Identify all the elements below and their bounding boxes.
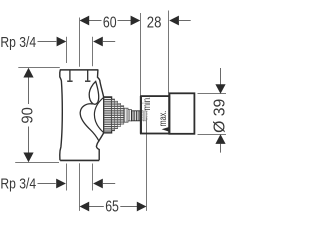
arrow Rp bottom left-pointing [93,179,103,189]
svg-text:65: 65 [105,198,119,215]
svg-text:min.: min. [142,96,153,111]
funnel neck curve [94,97,103,132]
arrow 90 bottom [23,153,33,163]
arrow right of dim 65 [137,202,147,212]
wire: tail Rp bottom [103,183,115,185]
extension line diameter top [198,93,227,95]
sleeve section1 rect [141,96,169,133]
extension line 90-dim top [18,67,60,69]
wire: leader Rp top [38,41,57,43]
extension line 90-dim bottom [15,162,59,164]
dimension line d39 bottom segment [220,144,222,153]
serrated cone step2 [115,101,118,128]
max depth arrow [162,127,169,131]
body left wall [60,70,63,160]
svg-text:Rp 3/4: Rp 3/4 [0,177,36,193]
arrow Rp top left-pointing [93,37,103,47]
svg-text:28: 28 [147,14,162,31]
arrow left of dim 65 [80,202,90,212]
svg-text:Rp 3/4: Rp 3/4 [0,35,36,51]
dimension line d39 top segment [220,68,222,85]
wire: tail of 28 right arrow [179,20,191,22]
thread hook left stem [69,71,71,81]
extension line sleeve divider x169 [168,11,170,94]
sleeve left edge thick [140,96,142,134]
arrow 90 top [23,68,33,78]
spindle ring step A [124,108,128,122]
wire: leader Rp bottom [38,183,56,185]
arrow right of dim 60 [131,16,141,26]
arrow Rp top right-pointing [57,37,67,47]
thread hook right foot [85,80,90,82]
knurl end block [132,111,140,121]
extension line diameter bottom [198,134,227,136]
extension line sleeve left x140 [140,13,142,95]
body top cap [60,69,99,71]
wire: top dimension line 60 segment right [118,20,132,22]
thread hook right stem [87,71,89,81]
spindle ring step B [128,110,132,121]
extension bar left thread bottom [66,164,68,191]
serrated cone step1 [112,99,115,131]
extension bar right thread top [92,37,94,67]
arrow d39 bottom [215,134,225,144]
body right wall lower [96,133,103,160]
hidden knurl inside sleeve [142,111,147,121]
extension line 65 right from spindle tip [146,118,148,211]
extension bar right thread bottom [92,164,94,191]
thread hook left foot [67,80,72,82]
extension line centerline above body [79,18,81,67]
hatch block outline [104,97,112,133]
arrow Rp bottom right-pointing [56,179,66,189]
serrated cone step3 [118,103,121,126]
wire: tail Rp top [103,41,115,43]
arrow left of dim 60 [80,16,90,26]
svg-text:60: 60 [103,14,117,31]
arrow right outside dim 28 [169,16,179,26]
extension bar left thread top [66,37,68,63]
dimension line 90 lower segment [28,127,30,153]
dimension line 90 upper segment [28,77,30,104]
svg-text:max.: max. [158,111,169,127]
svg-text:Ø 39: Ø 39 [211,99,228,133]
funnel big S silhouette [80,104,99,142]
sleeve section2 rect [169,93,194,134]
serrated cone step4 [121,106,124,125]
hatch block fill [104,98,111,133]
wire: dim 65 line right segment [120,206,137,208]
svg-text:90: 90 [19,107,36,123]
funnel teardrop [89,81,98,104]
arrow d39 top [215,84,225,94]
body right wall upper [98,70,104,97]
wire: top dimension line 60 segment left [89,20,102,22]
wire: dim 65 line left segment [89,206,104,208]
body bottom cap [60,159,99,161]
sleeve divider thick [168,93,170,134]
extension line centerline below body [79,163,81,211]
